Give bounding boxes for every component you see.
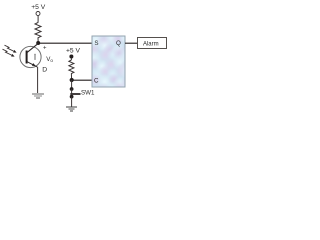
- svg-text:SW1: SW1: [81, 89, 95, 96]
- svg-text:D: D: [42, 67, 47, 74]
- svg-text:Alarm: Alarm: [143, 41, 159, 47]
- svg-text:+5 V: +5 V: [66, 47, 80, 54]
- svg-text:Q: Q: [116, 40, 121, 47]
- svg-text:C: C: [94, 78, 99, 85]
- svg-text:+5 V: +5 V: [31, 4, 45, 11]
- svg-text:+: +: [43, 45, 47, 51]
- svg-text:S: S: [94, 40, 98, 47]
